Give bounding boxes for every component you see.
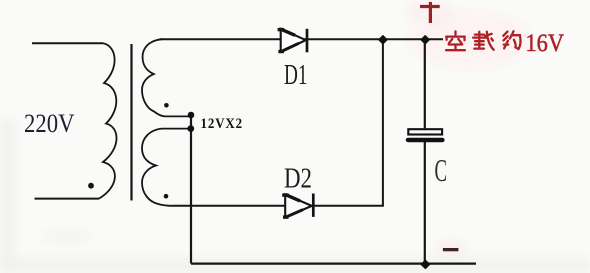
transformer core [130, 44, 132, 201]
polarity dot primary [88, 183, 94, 189]
wire: primary top lead [32, 42, 103, 44]
wire: D2 anode wire, cathode riser to top rail [172, 39, 383, 206]
diode D1 [278, 28, 307, 53]
wire: primary bottom lead [35, 198, 100, 200]
polarity dot secondary bottom [164, 194, 169, 199]
plus sign (red, output +) [420, 2, 440, 23]
label 空载约16V (no-load approx 16V) [446, 31, 520, 50]
junction: center tap lower dot [187, 125, 194, 132]
svg-text:C: C [435, 152, 448, 188]
junction diamond: capacitor top on rail [421, 36, 429, 44]
transformer secondary top winding [142, 39, 189, 116]
polarity dot secondary top [164, 103, 169, 108]
transformer T primary winding [99, 43, 117, 198]
wire: top rail (secondary top to output +) [160, 38, 443, 40]
wire: bottom rail [191, 263, 476, 265]
minus sign (red, output -) [443, 248, 459, 251]
capacitor C bottom plate [406, 138, 445, 143]
wire: capacitor branch upper [424, 40, 426, 129]
svg-text:220V: 220V [24, 108, 75, 138]
junction: center tap upper dot [188, 112, 195, 119]
glyph 载 [473, 32, 494, 50]
wire: capacitor branch lower [424, 142, 426, 264]
junction diamond: D2 riser on top rail [379, 36, 387, 44]
svg-text:12VX2: 12VX2 [201, 116, 244, 132]
glyph 空 [446, 31, 465, 50]
diode D2 [282, 193, 313, 218]
junction diamond: capacitor bottom on rail [421, 260, 429, 268]
svg-text:D1: D1 [284, 60, 308, 91]
svg-text:D2: D2 [284, 164, 312, 195]
capacitor C top plate [408, 129, 442, 134]
glyph 约 [503, 31, 520, 49]
transformer secondary bottom winding [142, 129, 189, 206]
wire: center tap vertical [190, 115, 192, 264]
svg-text:16V: 16V [526, 30, 565, 57]
